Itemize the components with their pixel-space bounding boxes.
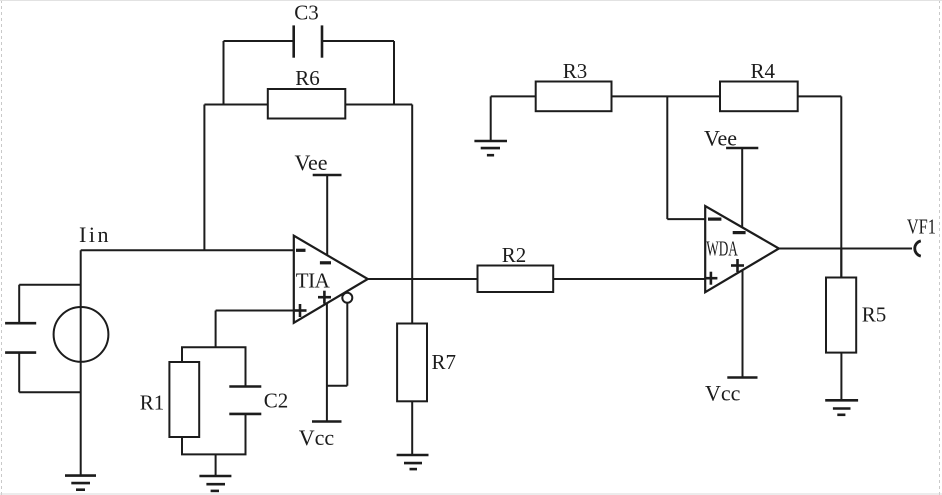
wire feedback right vertical / R7 branch <box>411 105 413 324</box>
svg-text:Vee: Vee <box>295 150 328 175</box>
wire C3 right vertical <box>393 41 395 105</box>
wire junction down to WDA inverting input <box>667 96 705 219</box>
power Vcc (WDA) <box>705 270 758 405</box>
svg-text:C2: C2 <box>264 389 289 413</box>
svg-text:Iin: Iin <box>79 222 111 247</box>
resistor R7 <box>397 324 456 402</box>
svg-text:VF1: VF1 <box>907 216 936 239</box>
ground (source) <box>65 476 96 490</box>
wire WDA output <box>779 248 912 250</box>
resistor R1 <box>140 347 199 454</box>
capacitor C2 <box>229 347 288 454</box>
pin minus (TIA external) <box>296 249 306 252</box>
wire from bubble <box>327 304 347 386</box>
ground (R5) <box>825 353 858 415</box>
pin minus (TIA internal) <box>320 261 331 264</box>
resistor R6 <box>268 66 346 119</box>
resistor R3 <box>536 59 612 111</box>
power Vee (WDA) <box>704 126 758 228</box>
power Vee (TIA) <box>295 150 342 256</box>
wire R3 to R4 <box>612 95 721 97</box>
wire R3 left <box>491 95 536 97</box>
ground (R7) <box>397 401 429 469</box>
wire TIA noninverting input <box>216 311 294 348</box>
wire output node down to R5 <box>840 249 842 278</box>
wire R1/C2 top <box>181 346 247 348</box>
svg-text:TIA: TIA <box>296 268 331 292</box>
offset bubble on TIA <box>342 293 352 303</box>
wire feedback left vertical to inverting input <box>203 105 205 251</box>
ground (R1/C2) <box>199 454 231 491</box>
pin minus (WDA external) <box>708 218 721 221</box>
resistor R4 <box>720 59 798 111</box>
svg-text:R2: R2 <box>502 243 527 267</box>
pin plus (WDA external) <box>704 272 717 285</box>
svg-text:R6: R6 <box>295 66 320 90</box>
wire Iin input to TIA inverting input <box>81 249 294 251</box>
svg-text:R7: R7 <box>431 350 456 374</box>
wire R2 to WDA noninverting input <box>553 278 705 280</box>
wire R1/C2 bottom <box>181 453 247 455</box>
capacitor C3 <box>224 1 395 58</box>
svg-text:C3: C3 <box>294 1 319 25</box>
resistor R5 <box>826 278 886 353</box>
wire C3 left vertical <box>223 41 225 105</box>
svg-text:R5: R5 <box>862 303 887 327</box>
resistor R2 <box>478 243 554 292</box>
wire R4 right <box>798 95 842 97</box>
pin minus (WDA internal) <box>733 231 746 234</box>
op-amp U2 WDA <box>705 206 779 292</box>
power Vcc (TIA) <box>299 303 342 450</box>
pin plus (TIA internal) <box>318 291 331 304</box>
svg-text:R4: R4 <box>750 59 775 83</box>
ground (R3) <box>474 96 507 155</box>
wire TIA output <box>368 278 478 280</box>
node VF1 output terminal <box>907 216 936 256</box>
svg-text:R3: R3 <box>563 59 588 83</box>
wire R4 feedback vertical to output node <box>840 96 842 277</box>
pin plus (WDA internal) <box>731 259 744 272</box>
svg-text:Vcc: Vcc <box>705 381 741 406</box>
current source I1 <box>54 250 109 475</box>
op-amp U1 TIA <box>294 236 368 323</box>
capacitor C1 (input capacitance) <box>5 285 81 393</box>
wire feedback horizontal right of R6 <box>345 104 412 106</box>
svg-text:WDA: WDA <box>706 237 738 261</box>
wire feedback horizontal left of R6 <box>204 104 267 106</box>
svg-text:R1: R1 <box>140 391 165 415</box>
pin plus (TIA external) <box>294 304 307 317</box>
svg-text:Vcc: Vcc <box>299 425 335 450</box>
